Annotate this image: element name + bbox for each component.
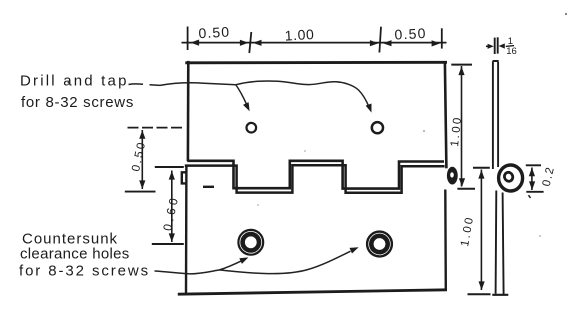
side view: 1/16 thickness callout left arrow — [486, 45, 490, 47]
top leader main curve — [160, 81, 369, 107]
countersunk hole right outer — [367, 232, 392, 257]
svg-text:0.50: 0.50 — [394, 25, 427, 43]
side view: knuckle barrel outer — [499, 165, 523, 191]
castellated knuckle edge of top leaf — [187, 161, 444, 189]
svg-text:Drill and tap: Drill and tap — [20, 73, 129, 90]
svg-text:1.00: 1.00 — [459, 215, 476, 248]
top dimension extension tick far left — [187, 27, 189, 51]
top dimension extension tick far right — [441, 28, 443, 48]
hinge pin eye, right edge — [447, 167, 458, 185]
top dimension tick at x=380 — [379, 27, 381, 53]
bottom leader main curve — [155, 251, 351, 274]
side view: callout bars — [494, 38, 496, 54]
side view: lower leaf bottom foot — [492, 294, 508, 296]
countersunk hole left outer — [238, 230, 263, 255]
0.2 stray tick below — [529, 195, 531, 198]
hinge bottom leaf left edge — [185, 166, 188, 294]
side view: callout right arrow — [499, 43, 505, 48]
side view: lower leaf edge-on (double line) — [496, 191, 504, 295]
svg-text:for 8-32 screws: for 8-32 screws — [19, 263, 150, 280]
hinge bottom leaf bottom edge — [178, 290, 447, 294]
side view: knuckle barrel pin hole — [503, 171, 514, 182]
hinge pin end tab, left edge — [182, 172, 187, 183]
svg-text:0.50: 0.50 — [130, 140, 148, 173]
svg-text:0.2: 0.2 — [541, 165, 557, 188]
left 0.60 dimension line — [171, 171, 173, 243]
tapped hole right (top leaf) — [372, 122, 383, 133]
top leader branch to left hole — [236, 85, 247, 105]
top dimension tick at x=250 — [249, 32, 251, 53]
side view: upper leaf edge-on (double line) — [493, 61, 499, 169]
top leader dashes after "tap" — [129, 84, 161, 86]
left 0.60 dimension bottom tick — [152, 243, 184, 245]
svg-text:16: 16 — [506, 46, 517, 57]
hinge top leaf outline (front view) — [187, 61, 190, 161]
right lower 1.00 dimension ticks — [473, 167, 490, 169]
top dimension line — [182, 42, 447, 44]
left 0.50 dimension line — [141, 130, 143, 189]
svg-text:0.60: 0.60 — [160, 194, 181, 232]
countersunk hole right inner — [371, 236, 387, 252]
left 0.60 dimension top tick — [155, 166, 184, 168]
0.2 dimension line with arrows — [531, 168, 533, 191]
right upper 1.00 dimension line — [461, 66, 463, 187]
hinge bottom leaf right edge — [444, 190, 447, 291]
tapped hole left (top leaf) — [247, 123, 257, 133]
right upper 1.00 dimension ticks — [451, 64, 472, 66]
castellated knuckle edge of bottom leaf — [185, 165, 445, 193]
svg-text:1.00: 1.00 — [284, 26, 314, 44]
bottom leader branch to left hole — [220, 260, 243, 270]
left 0.50 dimension: dashed extension line at hole centre height — [128, 127, 186, 129]
countersunk hole left inner — [243, 234, 259, 250]
scan specks — [68, 82, 70, 84]
left 0.50 dimension bottom tick — [125, 191, 156, 193]
right lower 1.00 dimension line — [480, 170, 482, 291]
svg-text:0.50: 0.50 — [198, 24, 230, 42]
svg-text:clearance holes: clearance holes — [20, 246, 130, 263]
svg-text:for 8-32 screws: for 8-32 screws — [21, 94, 134, 111]
0.2 dimension top tick — [526, 164, 541, 166]
top dimension arrowheads — [191, 40, 200, 46]
0.2 dimension bottom tick — [526, 191, 543, 193]
stray dash mark in knuckle seam — [203, 186, 214, 188]
